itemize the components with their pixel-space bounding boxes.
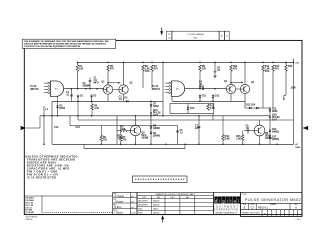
svg-text:CIRCUITS ARE PROPRIETARY IN NA: CIRCUITS ARE PROPRIETARY IN NATURE AND S…	[24, 42, 107, 45]
svg-text:3009B: 3009B	[265, 138, 272, 140]
svg-text:C13: C13	[76, 127, 81, 129]
svg-text:THIS SCHEMATIC IS FURNISHED ON: THIS SCHEMATIC IS FURNISHED ONLY FOR TES…	[24, 40, 109, 43]
svg-text:M602: M602	[194, 37, 198, 39]
svg-text:D662: D662	[138, 209, 143, 211]
svg-text:CORPORATION: CORPORATION	[214, 208, 239, 211]
svg-text:MFD: MFD	[94, 83, 99, 85]
svg-text:D662: D662	[272, 111, 278, 113]
svg-text:PU 32: PU 32	[152, 86, 159, 88]
svg-text:DRB 102: DRB 102	[26, 219, 33, 221]
svg-text:OUT: OUT	[153, 115, 158, 117]
svg-text:DEC3009B: DEC3009B	[138, 201, 148, 203]
svg-text:1N645: 1N645	[153, 209, 159, 211]
svg-text:1.5K: 1.5K	[121, 129, 126, 131]
svg-text:PU 32: PU 32	[30, 86, 37, 88]
svg-text:470: 470	[154, 68, 159, 71]
svg-text:4.7K: 4.7K	[94, 107, 99, 110]
svg-text:D662: D662	[60, 108, 66, 110]
svg-text:D662: D662	[153, 106, 159, 108]
svg-text:(H602): (H602)	[153, 128, 160, 130]
svg-text:2N3009: 2N3009	[153, 201, 160, 203]
svg-text:1-9-2016 CHANGE: 1-9-2016 CHANGE	[187, 33, 204, 36]
svg-text:5-67: 5-67	[131, 207, 134, 209]
svg-text:1 OF 1: 1 OF 1	[296, 219, 301, 221]
svg-text:EQUIPMENT: EQUIPMENT	[213, 206, 239, 208]
svg-text:(D664): (D664)	[272, 138, 279, 141]
svg-text:Q7 3639B: Q7 3639B	[25, 212, 34, 214]
svg-text:OUT: OUT	[272, 120, 277, 122]
svg-text:GND: GND	[295, 147, 300, 149]
svg-text:INPUTS: INPUTS	[152, 89, 161, 91]
svg-text:6-4-67: 6-4-67	[131, 213, 136, 215]
svg-text:R16: R16	[288, 66, 293, 68]
svg-text:D11: D11	[202, 95, 207, 97]
svg-text:i: i	[227, 198, 228, 203]
svg-text:5.6K: 5.6K	[225, 139, 230, 141]
svg-text:470: 470	[275, 68, 280, 71]
svg-text:l: l	[238, 198, 239, 203]
svg-text:R.Hisada: R.Hisada	[115, 196, 125, 198]
svg-text:2N3639: 2N3639	[153, 205, 160, 207]
svg-text:(D664): (D664)	[153, 134, 160, 137]
svg-text:i: i	[219, 198, 220, 203]
svg-text:CS: CS	[251, 207, 255, 210]
svg-text:J.Kotara: J.Kotara	[115, 201, 124, 204]
svg-text:PULSE GENERATOR M602: PULSE GENERATOR M602	[245, 198, 301, 202]
svg-text:I.Woods: I.Woods	[115, 213, 124, 215]
svg-text:COPYRIGHT 1967 BY DIGITAL EQUI: COPYRIGHT 1967 BY DIGITAL EQUIPMENT CORP…	[24, 45, 81, 48]
svg-text:82MMF: 82MMF	[83, 86, 91, 88]
svg-text:2.2K: 2.2K	[210, 108, 215, 110]
svg-text:D12: D12	[215, 95, 220, 97]
svg-text:DEC3639B: DEC3639B	[138, 205, 148, 207]
svg-text:+5V: +5V	[295, 62, 299, 64]
svg-text:M602-0-1: M602-0-1	[258, 208, 269, 210]
svg-text:PRINTED CIRCUIT REV.: PRINTED CIRCUIT REV.	[242, 212, 261, 214]
svg-text:4-67: 4-67	[131, 202, 134, 204]
svg-text:D13 D14: D13 D14	[246, 104, 256, 107]
svg-text:D10: D10	[190, 108, 195, 110]
svg-text:3009B: 3009B	[142, 138, 149, 140]
svg-text:R.Best: R.Best	[115, 206, 122, 209]
svg-text:C12: C12	[54, 127, 59, 129]
svg-text:4-67: 4-67	[131, 196, 134, 198]
svg-text:1N3606: 1N3606	[153, 213, 160, 215]
svg-text:D664: D664	[138, 213, 143, 215]
svg-text:1.5K: 1.5K	[236, 139, 241, 141]
svg-text:IC IS RESTRICTED: IC IS RESTRICTED	[27, 175, 57, 179]
svg-text:INPUTS: INPUTS	[30, 89, 39, 91]
svg-text:(H602): (H602)	[272, 131, 279, 133]
svg-text:NUMBER: NUMBER	[270, 204, 276, 206]
